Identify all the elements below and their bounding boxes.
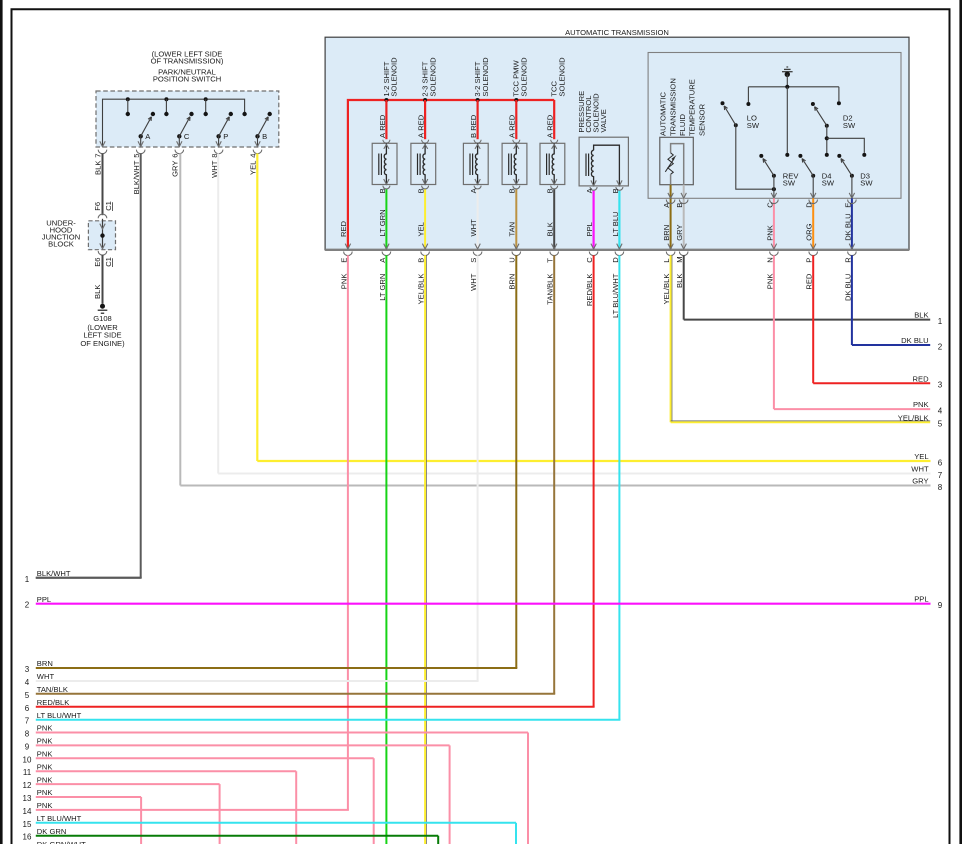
svg-text:WHT: WHT bbox=[37, 672, 55, 681]
svg-text:RED: RED bbox=[546, 114, 555, 131]
svg-text:E: E bbox=[843, 203, 852, 208]
svg-text:OF TRANSMISSION): OF TRANSMISSION) bbox=[151, 56, 224, 65]
svg-text:5: 5 bbox=[132, 154, 141, 158]
svg-text:BRN: BRN bbox=[662, 225, 671, 241]
svg-text:YEL/BLK: YEL/BLK bbox=[898, 413, 929, 422]
svg-text:15: 15 bbox=[23, 820, 32, 829]
svg-text:GRY: GRY bbox=[912, 477, 928, 486]
svg-text:2: 2 bbox=[938, 342, 943, 351]
svg-text:11: 11 bbox=[23, 768, 32, 777]
svg-text:14: 14 bbox=[23, 807, 32, 816]
svg-text:9: 9 bbox=[25, 742, 30, 751]
svg-text:TRANSMISSION: TRANSMISSION bbox=[668, 78, 677, 136]
svg-text:BLOCK: BLOCK bbox=[48, 240, 74, 249]
svg-text:8: 8 bbox=[938, 483, 943, 492]
svg-text:B: B bbox=[262, 132, 267, 141]
svg-text:SW: SW bbox=[822, 179, 835, 188]
svg-text:POSITION SWITCH: POSITION SWITCH bbox=[153, 75, 221, 84]
svg-text:8: 8 bbox=[25, 730, 30, 739]
svg-text:SOLENOID: SOLENOID bbox=[481, 57, 490, 97]
svg-text:PNK: PNK bbox=[913, 400, 929, 409]
svg-text:RED: RED bbox=[508, 114, 517, 131]
svg-text:ORG: ORG bbox=[805, 223, 814, 240]
svg-text:SENSOR: SENSOR bbox=[697, 103, 706, 136]
svg-text:FLUID: FLUID bbox=[678, 114, 687, 136]
svg-text:BLK: BLK bbox=[914, 311, 928, 320]
svg-text:SOLENOID: SOLENOID bbox=[428, 57, 437, 97]
svg-text:LT GRN: LT GRN bbox=[378, 209, 387, 236]
svg-text:DK BLU: DK BLU bbox=[843, 213, 852, 240]
svg-text:5: 5 bbox=[938, 420, 943, 429]
svg-text:C1: C1 bbox=[104, 201, 113, 211]
svg-text:1: 1 bbox=[25, 575, 30, 584]
svg-text:RED: RED bbox=[913, 374, 930, 383]
svg-text:P: P bbox=[223, 132, 228, 141]
svg-text:LT BLU: LT BLU bbox=[611, 211, 620, 236]
svg-text:7: 7 bbox=[25, 717, 30, 726]
svg-text:PPL: PPL bbox=[37, 595, 51, 604]
svg-text:BLK: BLK bbox=[93, 285, 102, 299]
svg-text:F6: F6 bbox=[93, 202, 102, 211]
svg-text:WHT: WHT bbox=[911, 465, 929, 474]
svg-text:DK GRN: DK GRN bbox=[37, 827, 67, 836]
svg-text:16: 16 bbox=[23, 833, 32, 842]
svg-text:OF ENGINE): OF ENGINE) bbox=[80, 339, 125, 348]
svg-text:RED: RED bbox=[378, 114, 387, 131]
svg-text:GRY: GRY bbox=[171, 161, 180, 177]
svg-text:7: 7 bbox=[94, 154, 103, 158]
svg-text:B: B bbox=[469, 133, 478, 138]
svg-text:3: 3 bbox=[938, 381, 943, 390]
svg-text:WHT: WHT bbox=[469, 219, 478, 237]
svg-text:YEL: YEL bbox=[914, 452, 928, 461]
svg-text:PNK: PNK bbox=[37, 724, 53, 733]
svg-text:10: 10 bbox=[23, 755, 32, 764]
svg-text:C: C bbox=[765, 202, 774, 208]
svg-text:GRY: GRY bbox=[675, 224, 684, 240]
svg-text:PPL: PPL bbox=[585, 222, 594, 236]
svg-text:9: 9 bbox=[938, 601, 943, 610]
svg-text:DK GRN/WHT: DK GRN/WHT bbox=[37, 840, 86, 844]
svg-text:2: 2 bbox=[25, 601, 30, 610]
svg-text:SW: SW bbox=[747, 121, 760, 130]
svg-text:LT BLU/WHT: LT BLU/WHT bbox=[37, 711, 82, 720]
svg-text:BLK: BLK bbox=[94, 161, 103, 175]
svg-text:RED: RED bbox=[339, 220, 348, 237]
svg-text:SW: SW bbox=[843, 121, 856, 130]
svg-text:BLK/WHT: BLK/WHT bbox=[37, 569, 71, 578]
svg-text:BLK/WHT: BLK/WHT bbox=[132, 160, 141, 194]
svg-text:C1: C1 bbox=[104, 257, 113, 267]
svg-text:4: 4 bbox=[25, 678, 30, 687]
svg-text:VALVE: VALVE bbox=[599, 109, 608, 132]
svg-text:YEL: YEL bbox=[417, 222, 426, 236]
svg-text:PNK: PNK bbox=[37, 750, 53, 759]
svg-text:3: 3 bbox=[25, 665, 30, 674]
svg-text:PNK: PNK bbox=[37, 737, 53, 746]
svg-text:1: 1 bbox=[938, 317, 943, 326]
svg-text:TAN/BLK: TAN/BLK bbox=[37, 685, 68, 694]
svg-text:SW: SW bbox=[860, 179, 873, 188]
svg-text:DK BLU: DK BLU bbox=[901, 336, 928, 345]
svg-text:7: 7 bbox=[938, 471, 943, 480]
svg-text:RED: RED bbox=[469, 114, 478, 131]
svg-text:13: 13 bbox=[23, 794, 32, 803]
svg-text:PPL: PPL bbox=[914, 595, 928, 604]
svg-text:AUTOMATIC TRANSMISSION: AUTOMATIC TRANSMISSION bbox=[565, 28, 669, 37]
svg-text:BRN: BRN bbox=[37, 659, 53, 668]
svg-text:4: 4 bbox=[938, 407, 943, 416]
svg-text:6: 6 bbox=[171, 154, 180, 158]
svg-text:B: B bbox=[675, 203, 684, 208]
svg-text:AUTOMATIC: AUTOMATIC bbox=[659, 91, 668, 136]
svg-text:TEMPERATURE: TEMPERATURE bbox=[688, 79, 697, 136]
svg-text:PNK: PNK bbox=[37, 762, 53, 771]
svg-text:PNK: PNK bbox=[37, 801, 53, 810]
svg-text:6: 6 bbox=[25, 704, 30, 713]
svg-text:D: D bbox=[805, 202, 814, 208]
svg-text:SOLENOID: SOLENOID bbox=[520, 57, 529, 97]
svg-text:SW: SW bbox=[783, 179, 796, 188]
svg-text:PNK: PNK bbox=[37, 775, 53, 784]
svg-text:6: 6 bbox=[938, 458, 943, 467]
svg-text:RED: RED bbox=[417, 114, 426, 131]
svg-text:PNK: PNK bbox=[765, 225, 774, 241]
svg-text:SOLENOID: SOLENOID bbox=[557, 57, 566, 97]
svg-text:RED/BLK: RED/BLK bbox=[37, 698, 70, 707]
svg-text:12: 12 bbox=[23, 781, 32, 790]
svg-text:C: C bbox=[184, 132, 190, 141]
svg-text:PNK: PNK bbox=[37, 788, 53, 797]
svg-text:BLK: BLK bbox=[546, 222, 555, 236]
svg-text:TAN: TAN bbox=[508, 222, 517, 237]
svg-text:LT BLU/WHT: LT BLU/WHT bbox=[37, 814, 82, 823]
svg-text:SOLENOID: SOLENOID bbox=[390, 57, 399, 97]
svg-text:5: 5 bbox=[25, 691, 30, 700]
svg-text:E6: E6 bbox=[93, 258, 102, 267]
